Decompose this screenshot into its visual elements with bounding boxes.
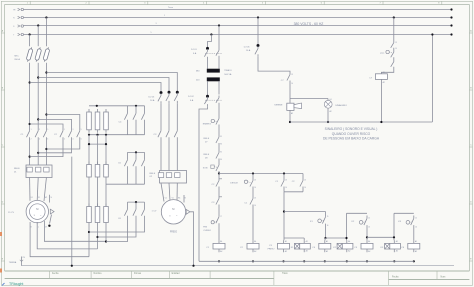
wire: [38, 78, 169, 92]
svg-text:15: 15: [327, 216, 329, 218]
bus line L1: [24, 17, 452, 19]
svg-text:Titulo: Titulo: [282, 272, 288, 275]
bypass bus C5: [128, 151, 145, 153]
wire stub: [183, 195, 185, 203]
node: [218, 260, 220, 262]
node: [192, 265, 194, 267]
wire: [218, 189, 220, 196]
svg-text:TRicught: TRicught: [9, 282, 23, 286]
svg-text:A2: A2: [330, 110, 332, 113]
corner mark: [2, 283, 5, 286]
contactor C6 pole 1: [127, 202, 129, 206]
node: [393, 236, 395, 238]
wire: [30, 140, 63, 157]
svg-text:TRAFO: TRAFO: [224, 69, 232, 72]
svg-text:95: 95: [220, 136, 222, 138]
resistor R3b: [97, 204, 99, 207]
node tap L1: [45, 16, 47, 18]
ground terminal: [21, 257, 23, 266]
svg-text:14: 14: [395, 48, 397, 50]
motor M1: [26, 200, 48, 222]
wire: [106, 227, 128, 242]
wire: [89, 143, 106, 145]
svg-text:500 VA: 500 VA: [224, 73, 232, 76]
rung top line: [219, 173, 303, 175]
svg-text:Entidad: Entidad: [172, 272, 181, 275]
wire: [46, 115, 79, 129]
breaker link: [205, 53, 222, 55]
node: [29, 123, 31, 125]
wire: [283, 192, 285, 240]
svg-text:A1: A1: [220, 240, 222, 243]
contactor C6 pole 2: [135, 202, 137, 206]
rotor bus 3: [106, 183, 145, 185]
node: [252, 260, 254, 262]
svg-text:A2: A2: [396, 249, 398, 252]
svg-text:RELE: RELE: [204, 154, 210, 156]
contact: [391, 41, 394, 51]
svg-text:SIRENE: SIRENE: [274, 104, 283, 106]
wire: [29, 35, 31, 47]
svg-text:A1: A1: [396, 240, 398, 243]
svg-text:DESCE: DESCE: [230, 183, 238, 185]
node: [45, 71, 47, 73]
wire: [218, 146, 220, 151]
node: [37, 152, 39, 154]
signal bottom line: [290, 121, 432, 123]
svg-text:3: 3: [156, 23, 157, 25]
svg-text:W1: W1: [178, 197, 181, 199]
coil feed bus: [367, 236, 394, 238]
wire: [30, 124, 63, 128]
svg-text:FIM: FIM: [203, 226, 207, 228]
contactor C2 pole 2: [68, 128, 71, 140]
svg-text:H1: H1: [330, 99, 332, 101]
svg-text:QUANDO OUVER RISCO: QUANDO OUVER RISCO: [332, 132, 371, 136]
wire: [207, 81, 209, 95]
contactor C1 pole 3: [43, 128, 46, 140]
contact C7: [287, 72, 290, 83]
title right mid line: [389, 279, 470, 281]
contact: [391, 60, 394, 70]
breaker DJ03 pole 3: [176, 91, 179, 94]
node: [29, 156, 31, 158]
wire riser to L3: [431, 35, 433, 123]
title block top line: [5, 270, 470, 272]
side border ticks: [1, 32, 4, 34]
node: [380, 121, 382, 123]
fuse F1: [26, 47, 34, 62]
title block separators: [49, 271, 51, 278]
svg-text:16 A: 16 A: [150, 99, 155, 102]
svg-text:14: 14: [304, 187, 306, 189]
node lamp branch: [290, 98, 328, 100]
node: [252, 172, 254, 174]
rotor bus 2: [89, 134, 145, 136]
wire: [218, 26, 220, 49]
breaker DJ02 pole 1: [206, 95, 209, 98]
resistor R1a: [88, 109, 90, 112]
contactor C4 pole 1: [127, 106, 129, 111]
motor FREIO PE tab: [186, 209, 190, 214]
control rail left: [199, 106, 208, 261]
wire: [252, 174, 254, 179]
svg-text:Fecha: Fecha: [392, 276, 399, 278]
contactor C3 pole 1: [158, 128, 161, 140]
svg-text:1: 1: [164, 15, 165, 17]
svg-text:A2: A2: [368, 250, 370, 253]
coil C3: [278, 243, 290, 249]
svg-text:Firmas: Firmas: [134, 272, 142, 275]
bus right end dots: [450, 8, 452, 10]
svg-text:DJ 03: DJ 03: [149, 97, 155, 99]
node: [45, 113, 47, 115]
svg-text:A2: A2: [254, 250, 256, 253]
svg-text:6 A: 6 A: [190, 99, 194, 102]
svg-text:A1: A1: [254, 240, 256, 243]
wire: [218, 174, 220, 179]
pilot lamp SINALEIRO: [327, 99, 329, 101]
node: [71, 265, 73, 267]
svg-text:14: 14: [254, 205, 256, 207]
svg-text:95: 95: [220, 152, 222, 154]
wire: [207, 59, 209, 69]
svg-text:Fecha: Fecha: [52, 273, 59, 275]
svg-text:W1: W1: [45, 197, 48, 199]
wire: [252, 207, 254, 240]
node: [324, 260, 326, 262]
svg-text:A2: A2: [306, 249, 308, 252]
svg-text:Nombre: Nombre: [94, 272, 103, 275]
pushbutton DESCE: [244, 180, 247, 183]
node: [218, 172, 220, 174]
svg-text:200 A: 200 A: [14, 58, 20, 61]
wire: [38, 140, 71, 153]
wire: [98, 227, 137, 238]
svg-text:13: 13: [254, 180, 256, 182]
svg-text:A2: A2: [291, 112, 293, 115]
svg-text:FREIO: FREIO: [268, 249, 275, 251]
wire: [258, 57, 290, 72]
svg-text:SOB: SOB: [203, 167, 208, 169]
svg-text:13: 13: [291, 74, 293, 76]
ground bus TERRA: [22, 265, 455, 267]
resistor R2a: [88, 162, 90, 165]
svg-text:2: 2: [31, 139, 32, 141]
breaker DJ01 pole 2: [216, 48, 219, 58]
svg-text:380 VOLTS - 60 HZ: 380 VOLTS - 60 HZ: [294, 22, 324, 26]
wire: [38, 119, 71, 128]
svg-text:M: M: [36, 207, 38, 211]
bypass bus C6: [128, 201, 145, 203]
svg-text:1 CV: 1 CV: [152, 211, 157, 213]
svg-text:EMERG: EMERG: [203, 124, 211, 126]
svg-text:17: 17: [220, 216, 222, 218]
contactor C1 pole 2: [35, 128, 38, 140]
wire PE to ground: [190, 212, 194, 266]
svg-text:13: 13: [285, 180, 287, 182]
svg-text:13: 13: [254, 198, 256, 200]
node: [135, 105, 137, 107]
K2 rung: [347, 212, 368, 214]
wire: [381, 69, 393, 74]
node: [283, 210, 285, 212]
coil C4: [319, 243, 331, 249]
wire rotor 1: [30, 222, 89, 257]
wire: [46, 73, 177, 92]
resistor R2b: [97, 162, 99, 165]
svg-text:Num: Num: [441, 276, 446, 278]
svg-text:14: 14: [291, 83, 293, 85]
node: [413, 260, 415, 262]
svg-text:DJ 02: DJ 02: [188, 96, 194, 98]
node: [345, 237, 347, 239]
svg-text:16: 16: [415, 227, 417, 229]
wire: [127, 169, 129, 184]
wire: [160, 140, 162, 171]
svg-text:DE PESSOAS EM BAIXO DA CARGA: DE PESSOAS EM BAIXO DA CARGA: [323, 137, 380, 141]
limit switch FIM CURSO: [211, 221, 214, 224]
breaker link: [205, 99, 222, 101]
svg-text:SINALEIRO ( SONORO E VISUAL ): SINALEIRO ( SONORO E VISUAL ): [325, 127, 378, 131]
wire: [127, 219, 129, 227]
svg-text:13: 13: [304, 180, 306, 182]
timer contact K3: [406, 221, 410, 225]
svg-text:A2: A2: [326, 250, 328, 253]
fuse F3: [43, 47, 51, 62]
wire: [303, 238, 305, 240]
siren: [287, 103, 294, 110]
svg-text:U1: U1: [165, 197, 167, 199]
node: [96, 236, 98, 238]
svg-text:14: 14: [254, 187, 256, 189]
title block mid line left: [5, 278, 274, 280]
node: [45, 148, 47, 150]
wire: [30, 83, 161, 93]
svg-text:U1: U1: [31, 197, 33, 199]
svg-text:15: 15: [415, 218, 417, 220]
svg-text:6 A: 6 A: [193, 52, 197, 55]
wire: [327, 108, 329, 122]
wire PE drop: [71, 157, 73, 266]
svg-text:A1: A1: [368, 240, 370, 243]
wire: [289, 110, 291, 122]
wire: [127, 123, 129, 135]
wire: [324, 238, 327, 240]
node: [346, 260, 348, 262]
svg-text:6: 6: [81, 139, 82, 141]
title separator: [273, 271, 275, 285]
svg-text:V1: V1: [172, 197, 174, 199]
svg-text:RELE: RELE: [14, 168, 20, 170]
contactor C5 pole 1: [127, 152, 129, 157]
svg-text:RELE: RELE: [150, 173, 156, 175]
title separator: [436, 271, 438, 280]
svg-text:15: 15: [368, 218, 370, 220]
contactor C4 pole 2: [135, 106, 137, 111]
node: [96, 105, 98, 107]
svg-text:A1: A1: [306, 240, 308, 243]
resistor R1b: [97, 109, 99, 112]
svg-text:TERRA: TERRA: [9, 261, 17, 264]
contact C1 latch: [281, 178, 284, 189]
timer coil K3: [385, 243, 390, 249]
contact RELE08: [216, 150, 219, 161]
svg-text:A2: A2: [285, 250, 287, 253]
node: [431, 33, 433, 35]
wire: [413, 228, 415, 240]
pressure switch SOB: [211, 165, 214, 168]
wire: [252, 189, 254, 196]
node: [210, 33, 212, 35]
overload relay RELE01: [26, 165, 52, 178]
wire rotor 2: [37, 222, 97, 249]
wire: [88, 180, 90, 207]
riser: [393, 213, 395, 240]
coil feed bus: [326, 237, 347, 239]
transformer T1 secondary bar: [207, 77, 220, 81]
contact RELE07: [216, 135, 219, 146]
wire: [46, 140, 79, 149]
node: [324, 237, 326, 239]
breaker DJ03 pole 1: [160, 91, 163, 94]
wire: [45, 18, 47, 47]
bus line L2: [24, 25, 452, 27]
timer contact K2: [359, 221, 363, 225]
breaker DJ01 pole 1: [206, 47, 209, 50]
svg-text:A1: A1: [348, 240, 350, 243]
wire: [366, 228, 368, 240]
svg-text:A2: A2: [220, 250, 222, 253]
svg-text:L: L: [38, 227, 39, 229]
node tap L2: [37, 24, 39, 26]
svg-text:A1: A1: [326, 240, 328, 243]
control bottom rail: [199, 260, 414, 262]
svg-text:1: 1: [31, 129, 32, 131]
node: [282, 260, 284, 262]
coil C2: [247, 243, 259, 249]
top ruler ticks and numbers: [29, 1, 31, 4]
resistor R1c: [105, 109, 107, 112]
node: [327, 121, 329, 123]
transformer T1 primary bar: [207, 69, 220, 73]
svg-text:A2: A2: [383, 81, 385, 84]
contactor C2 pole 3: [77, 128, 80, 140]
node tap L3: [29, 33, 31, 35]
wire: [289, 83, 291, 103]
node: [257, 16, 259, 18]
contact C1 aux: [250, 196, 253, 207]
svg-text:13: 13: [395, 42, 397, 44]
wire: [218, 226, 220, 240]
svg-text:DJ 05: DJ 05: [244, 46, 250, 48]
breaker DJ05: [257, 44, 260, 47]
contactor C4 pole 3: [144, 106, 146, 111]
svg-text:10 A: 10 A: [246, 49, 251, 52]
svg-text:5: 5: [81, 129, 82, 131]
wire: [325, 212, 327, 215]
node: [289, 121, 291, 123]
svg-text:M: M: [172, 207, 174, 211]
timer coil K1: [295, 243, 300, 249]
K3 rung: [394, 212, 414, 214]
contactor C3 pole 3: [174, 128, 177, 140]
breaker DJ03 pole 2: [168, 91, 171, 94]
node: [393, 16, 395, 18]
coil C7: [375, 74, 387, 80]
wire: [218, 105, 220, 116]
wire: [208, 35, 212, 48]
node: [37, 76, 39, 78]
coil feed bus: [284, 237, 304, 239]
latch bottom tie: [283, 189, 285, 192]
wire: [161, 183, 164, 202]
motor M1 PE tab: [50, 209, 54, 214]
resistor R2c: [105, 162, 107, 165]
node: [29, 81, 31, 83]
wire: [160, 104, 162, 128]
contactor C5 pole 2: [135, 152, 137, 157]
wire: [218, 207, 220, 214]
svg-text:15 CV: 15 CV: [8, 212, 15, 214]
wire: [257, 18, 259, 45]
svg-text:A2: A2: [348, 249, 350, 252]
wire: [218, 161, 220, 163]
K1 rung: [284, 211, 326, 213]
svg-text:14: 14: [285, 187, 287, 189]
contactor C3 pole 2: [166, 128, 169, 140]
motor FREIO: [161, 200, 185, 224]
wire: [37, 26, 39, 47]
node: [393, 260, 395, 262]
contact C2 NC: [216, 178, 219, 189]
svg-text:96: 96: [220, 159, 222, 161]
contactor C1 pole 1: [27, 128, 30, 140]
edge mark: [0, 269, 2, 273]
wire: [283, 174, 285, 179]
wire: [29, 178, 31, 201]
contact C2 latch: [300, 178, 303, 189]
contactor C6 pole 3: [144, 202, 146, 206]
node: [105, 240, 107, 242]
emergency stop button: [211, 119, 214, 122]
wire: [393, 18, 395, 41]
contactor C2 pole 1: [60, 128, 63, 140]
resistor R3c: [105, 204, 107, 207]
svg-text:SEC: SEC: [14, 56, 19, 58]
svg-text:96: 96: [220, 144, 222, 146]
wire: [88, 135, 90, 165]
riser: [346, 213, 348, 240]
svg-text:A1: A1: [285, 240, 287, 243]
timer contact K1: [318, 219, 322, 223]
coil C6: [408, 243, 420, 249]
edge mark: [0, 232, 2, 236]
node: [37, 118, 39, 120]
fuse F2: [34, 47, 42, 62]
contact C3 NC: [216, 196, 219, 207]
svg-text:A2: A2: [415, 250, 417, 253]
wire rotor 3: [44, 221, 106, 241]
node: [366, 236, 368, 238]
node: [88, 134, 90, 136]
node: [366, 260, 368, 262]
resistor R3a: [88, 204, 90, 207]
wire: [89, 227, 145, 233]
breaker DJ02 pole 2: [216, 96, 219, 106]
svg-text:A1: A1: [415, 240, 417, 243]
bus line Terra: [24, 9, 452, 11]
